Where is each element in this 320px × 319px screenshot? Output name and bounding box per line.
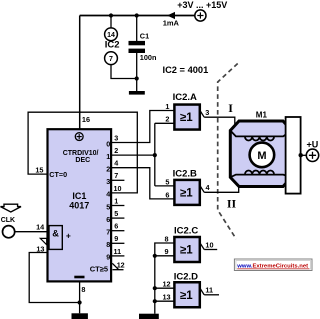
svg-text:9: 9	[106, 253, 110, 262]
svg-text:IC2.D: IC2.D	[174, 271, 198, 282]
svg-text:IC2.A: IC2.A	[173, 92, 197, 103]
svg-text:6: 6	[165, 190, 169, 199]
svg-text:5: 5	[114, 209, 118, 218]
svg-text:1: 1	[106, 152, 110, 161]
svg-text:100n: 100n	[140, 53, 157, 62]
svg-text:6: 6	[106, 215, 110, 224]
svg-text:1mA: 1mA	[163, 19, 180, 28]
svg-text:0: 0	[106, 139, 110, 148]
svg-text:13: 13	[162, 293, 170, 302]
svg-text:&: &	[52, 228, 59, 238]
svg-text:11: 11	[114, 247, 122, 256]
svg-text:14: 14	[107, 32, 115, 39]
svg-text:2: 2	[106, 165, 110, 174]
svg-text:5: 5	[165, 177, 169, 186]
svg-text:1: 1	[114, 196, 118, 205]
svg-text:IC2: IC2	[105, 39, 120, 50]
svg-text:II: II	[227, 196, 237, 210]
svg-text:10: 10	[205, 240, 213, 249]
svg-text:M1: M1	[256, 111, 268, 120]
svg-text:≥1: ≥1	[180, 187, 193, 199]
svg-text:2: 2	[114, 146, 118, 155]
svg-text:4: 4	[106, 190, 110, 199]
svg-text:≥1: ≥1	[180, 245, 193, 257]
svg-text:CT=0: CT=0	[49, 170, 67, 179]
svg-text:+U: +U	[307, 139, 319, 149]
svg-text:16: 16	[82, 115, 90, 124]
svg-text:C1: C1	[140, 31, 149, 40]
svg-text:+: +	[66, 231, 71, 241]
svg-text:9: 9	[164, 247, 168, 256]
svg-text:9: 9	[114, 234, 118, 243]
svg-text:4: 4	[114, 159, 118, 168]
svg-text:I: I	[228, 101, 233, 115]
svg-text:12: 12	[162, 280, 170, 289]
svg-text:7: 7	[114, 171, 118, 180]
svg-text:IC2.C: IC2.C	[174, 226, 198, 237]
svg-text:3: 3	[205, 108, 209, 117]
svg-text:5: 5	[106, 202, 110, 211]
svg-text:6: 6	[114, 222, 118, 231]
svg-text:DEC: DEC	[75, 157, 90, 164]
svg-text:IC2 = 4001: IC2 = 4001	[163, 65, 209, 75]
svg-text:+3V ... +15V: +3V ... +15V	[177, 0, 227, 10]
svg-text:3: 3	[114, 133, 118, 142]
svg-text:2: 2	[165, 115, 169, 124]
svg-text:≥1: ≥1	[180, 112, 193, 124]
svg-text:15: 15	[35, 166, 43, 175]
svg-text:11: 11	[205, 286, 213, 295]
svg-text:8: 8	[81, 285, 85, 294]
svg-text:8: 8	[164, 235, 168, 244]
svg-text:≥1: ≥1	[180, 290, 193, 302]
svg-text:14: 14	[36, 222, 45, 231]
svg-text:3: 3	[106, 177, 110, 186]
svg-text:8: 8	[106, 240, 110, 249]
svg-text:M: M	[257, 150, 266, 162]
svg-text:4017: 4017	[69, 200, 89, 210]
svg-text:IC1: IC1	[72, 191, 86, 201]
svg-text:7: 7	[109, 56, 113, 63]
svg-text:CT≥5: CT≥5	[90, 264, 108, 273]
svg-text:IC2.B: IC2.B	[173, 168, 197, 179]
svg-text:7: 7	[106, 228, 110, 237]
svg-text:10: 10	[114, 184, 122, 193]
svg-text:1: 1	[165, 102, 169, 111]
svg-text:CLK: CLK	[1, 217, 15, 224]
